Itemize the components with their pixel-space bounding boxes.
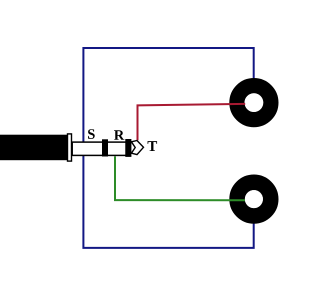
label R (ring) [114, 130, 124, 139]
speaker SPK1 (top) [237, 86, 271, 120]
wire: ring signal (green) from plug ring to SPK2 [115, 156, 245, 200]
plug J1 insulator band 2 (ring/tip) [125, 139, 131, 157]
wire: sleeve/ground loop (blue) linking plug sleeve to both speakers [83, 48, 253, 248]
wire: tip signal (red) from plug tip to SPK1 [138, 104, 246, 140]
plug J1 shaft (sleeve contact) [72, 142, 126, 155]
speaker SPK2 center hole [245, 190, 263, 208]
speaker SPK2 (bottom) [237, 182, 271, 216]
speaker SPK1 center hole [245, 93, 263, 111]
plug J1 collar [68, 134, 72, 161]
label T (tip) [148, 141, 158, 151]
label S (sleeve) [88, 129, 95, 139]
plug J1 tip (arrow) [131, 141, 143, 155]
plug J1 insulator band 1 (sleeve/ring) [102, 139, 108, 156]
plug J1 handle [0, 135, 67, 161]
